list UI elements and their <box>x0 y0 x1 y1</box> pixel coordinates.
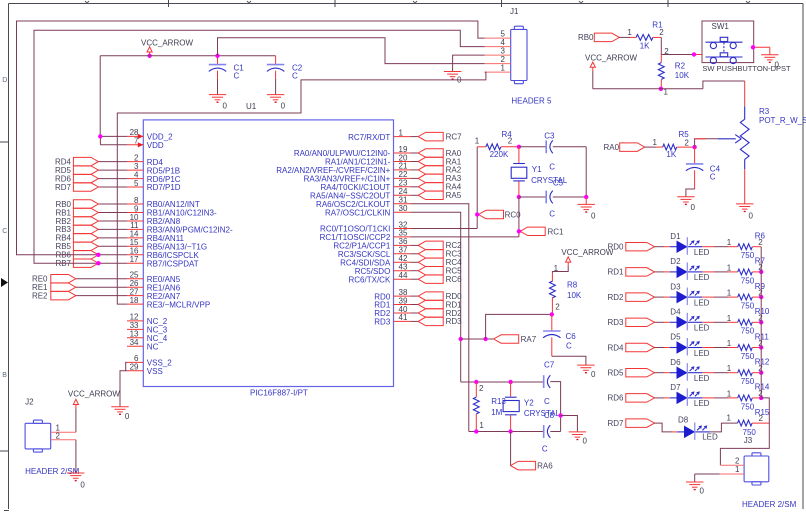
svg-text:0: 0 <box>700 486 705 495</box>
pin label 2 of R2 <box>664 47 669 56</box>
wire Y2 bottom rail (OSC2) <box>469 431 544 433</box>
value label C5 (overlapped) <box>553 179 564 188</box>
resistor R2 <box>658 55 689 89</box>
svg-text:RD1: RD1 <box>607 268 624 277</box>
svg-text:1: 1 <box>653 138 658 147</box>
pin label 1 of R13 <box>479 421 484 430</box>
wire RD5 port to LED D6 <box>655 372 670 374</box>
pin label 2 of R11 <box>758 339 763 348</box>
junction VCC_ARROW anchor <box>147 54 151 58</box>
svg-text:PIC16F887-I/PT: PIC16F887-I/PT <box>250 389 308 398</box>
LED D4 <box>670 308 710 333</box>
pin label 1 of R12 <box>727 364 732 373</box>
wire LED D8 to resistor R15 <box>710 423 738 432</box>
junction RC1 port tip <box>517 229 521 233</box>
svg-text:RC1: RC1 <box>548 227 565 236</box>
svg-text:2: 2 <box>735 457 740 466</box>
wire LED D1 to resistor R6 <box>702 246 737 248</box>
ports RC2-RC6 (chip side) <box>411 241 463 284</box>
svg-text:RA5: RA5 <box>446 191 462 200</box>
port RD0 (LED side) <box>607 242 654 251</box>
ports RD0-RD3 (chip side) <box>411 292 463 326</box>
svg-text:RC0: RC0 <box>505 210 522 219</box>
svg-text:2: 2 <box>55 431 60 440</box>
svg-text:0: 0 <box>591 212 596 221</box>
resistor R7 750 <box>738 257 766 286</box>
port RB0 <box>578 33 619 42</box>
svg-text:VCC_ARROW: VCC_ARROW <box>561 248 613 257</box>
connector J3 body <box>744 453 769 485</box>
svg-text:750: 750 <box>741 251 755 260</box>
ground at Y1 circuit <box>578 204 597 220</box>
svg-text:220K: 220K <box>490 150 509 159</box>
ports RE0-RE2 (left) <box>32 274 127 300</box>
svg-text:R3: R3 <box>759 107 770 116</box>
junction R13 top <box>474 380 478 384</box>
resistor R12 750 <box>738 358 770 387</box>
wire Y2 node to RA6 port <box>510 432 512 466</box>
svg-text:1M: 1M <box>491 408 502 417</box>
junction Y2 top <box>508 380 512 384</box>
resistor R11 750 <box>738 332 770 361</box>
svg-text:34: 34 <box>130 338 139 347</box>
junction R8/C6 branch at RA7 net <box>483 337 487 341</box>
pin label 2 of R15 <box>759 414 764 423</box>
wire R15 to bus <box>752 422 769 424</box>
svg-text:RA7: RA7 <box>521 335 537 344</box>
wire C6 to ground <box>552 356 586 365</box>
svg-text:1: 1 <box>727 364 732 373</box>
pin label 1 of R4 <box>475 136 480 145</box>
wire RD4 port to LED D5 <box>655 347 670 349</box>
resistor R9 750 <box>738 282 766 311</box>
wire R12 to bus <box>752 372 761 374</box>
pin label 2 of R12 <box>758 364 763 373</box>
svg-text:LED: LED <box>702 433 718 442</box>
wire C4 to ground <box>686 189 695 197</box>
svg-text:RC7: RC7 <box>446 132 463 141</box>
ground at J3 <box>686 482 705 495</box>
svg-text:RD3: RD3 <box>607 318 624 327</box>
power VCC_ARROW (at J2) <box>68 389 120 408</box>
connector J1 pin stubs and numbers 1-5 <box>485 30 511 73</box>
pin label 2 of R8 <box>555 303 560 312</box>
pin label 1 of R11 <box>727 339 732 348</box>
junction LED bus row 5 <box>759 345 763 349</box>
svg-text:RD7/P1D: RD7/P1D <box>147 183 181 192</box>
wire net RB7 to J1 pin 4 <box>34 30 485 263</box>
junction RB7 port tip <box>96 261 100 265</box>
svg-text:750: 750 <box>741 402 755 411</box>
pin label 2 of R9 <box>758 288 763 297</box>
junction SW1 right pin <box>751 45 755 49</box>
ground under R3 <box>736 204 754 220</box>
resistor R10 750 <box>738 307 770 336</box>
junction LED bus row 7 <box>759 396 763 400</box>
wire R6 to bus <box>752 246 761 248</box>
chip U1 refdes U1 <box>246 102 257 111</box>
svg-text:C: C <box>292 72 298 81</box>
svg-text:0: 0 <box>591 370 596 379</box>
pin label 1 of R2 <box>664 88 669 97</box>
svg-text:RD0: RD0 <box>607 243 624 252</box>
svg-text:RD7: RD7 <box>607 419 624 428</box>
svg-text:RD3: RD3 <box>446 317 463 326</box>
resistor R6 750 <box>738 232 766 261</box>
svg-text:18: 18 <box>130 296 139 305</box>
wire RD1 port to LED D2 <box>655 271 670 273</box>
svg-text:NC: NC <box>147 343 159 352</box>
svg-text:C8: C8 <box>544 411 555 420</box>
wire VCC to J1 pin 2 <box>218 38 485 64</box>
svg-text:RE2: RE2 <box>32 291 48 300</box>
capacitor C7 <box>544 360 555 406</box>
pin label 2 of R10 <box>758 314 763 323</box>
wire R9 to bus <box>752 296 761 298</box>
junction SW1 left pin <box>692 52 696 56</box>
svg-text:1: 1 <box>399 128 404 137</box>
junction LED bus row 4 <box>759 320 763 324</box>
wire VCC to R2 pin1 and R3 <box>593 71 745 89</box>
wire C8 to riser <box>550 431 560 433</box>
port RA6 <box>511 461 554 470</box>
wire RD6 port to LED D7 <box>655 397 670 399</box>
power VCC_ARROW (at R2) <box>585 53 637 71</box>
svg-text:HEADER 2/SM: HEADER 2/SM <box>742 500 797 509</box>
svg-text:0: 0 <box>775 60 780 69</box>
wire RA7/OSC1 from pin 30 <box>411 212 461 382</box>
svg-text:J3: J3 <box>744 436 753 445</box>
ground at SW1 <box>761 55 779 70</box>
connector J2 refdes J2 <box>25 397 34 406</box>
svg-text:D4: D4 <box>670 308 681 317</box>
resistor R13 labels <box>491 397 506 417</box>
svg-text:C: C <box>710 172 716 181</box>
svg-text:RA7/OSC1/CLKIN: RA7/OSC1/CLKIN <box>325 208 391 217</box>
svg-text:RD2: RD2 <box>607 293 624 302</box>
ground under C1 <box>209 95 228 111</box>
port RA0 (at R5) <box>604 143 645 152</box>
svg-text:7: 7 <box>134 137 139 146</box>
wire RB0 to R1 <box>619 36 636 38</box>
svg-text:Y1: Y1 <box>532 165 542 174</box>
wire RD7 port to LED D8 <box>655 423 678 432</box>
svg-text:1: 1 <box>727 289 732 298</box>
chip U1 part label PIC16F887-I/PT <box>250 389 308 398</box>
svg-text:750: 750 <box>741 327 755 336</box>
pin label 1 of R1 <box>627 28 632 37</box>
junction RB6 port tip <box>96 253 100 257</box>
svg-text:U1: U1 <box>246 102 257 111</box>
svg-text:1: 1 <box>727 238 732 247</box>
svg-text:2: 2 <box>758 238 763 247</box>
wire VSS pins to ground <box>120 362 127 406</box>
svg-text:LED: LED <box>694 374 710 383</box>
junction LED bus row 2 <box>759 270 763 274</box>
wire J1 pin 3 to ground <box>453 55 485 71</box>
svg-text:VCC_ARROW: VCC_ARROW <box>68 389 120 398</box>
port RD2 (LED side) <box>607 293 654 302</box>
junction R8 pin 2 node <box>550 312 554 316</box>
potentiometer R3 wiper arrow <box>718 135 741 143</box>
pin label 2 of R13 <box>479 384 484 393</box>
svg-text:RD6: RD6 <box>607 394 624 403</box>
svg-text:2: 2 <box>659 28 664 37</box>
svg-text:2: 2 <box>508 136 513 145</box>
wire LED D4 to resistor R10 <box>702 321 737 323</box>
capacitor C1 <box>209 56 244 95</box>
wire VCC to J2 pin 1 <box>75 408 77 432</box>
junction LED bus row 3 <box>759 295 763 299</box>
svg-text:J2: J2 <box>25 397 34 406</box>
pin label 1 of R5 <box>653 138 658 147</box>
wire R11 to bus <box>752 347 761 349</box>
wire ground stem Y1 <box>585 197 587 204</box>
connector J3 refdes J3 <box>744 436 753 445</box>
svg-text:C: C <box>2 228 7 235</box>
svg-text:1: 1 <box>735 465 740 474</box>
svg-text:0: 0 <box>223 102 228 111</box>
wire LED D6 to resistor R12 <box>702 372 737 374</box>
port RC0 <box>479 210 522 219</box>
svg-text:C: C <box>566 342 572 351</box>
svg-text:C: C <box>234 72 240 81</box>
svg-text:10K: 10K <box>567 291 582 300</box>
svg-text:0: 0 <box>583 437 588 446</box>
svg-text:1: 1 <box>479 421 484 430</box>
capacitor C8 <box>542 425 550 454</box>
pin label 2 of R14 <box>758 389 763 398</box>
svg-text:1: 1 <box>554 264 559 273</box>
power VCC_ARROW (top) <box>141 38 193 55</box>
resistor R4 <box>486 130 512 159</box>
port RD5 (LED side) <box>607 368 654 377</box>
connector J2 pin 2 stub <box>51 431 76 440</box>
svg-text:1: 1 <box>727 339 732 348</box>
svg-text:D1: D1 <box>670 232 681 241</box>
ground at VSS <box>111 407 130 421</box>
wire R10 to bus <box>752 321 761 323</box>
wire VCC riser to VDD pins <box>100 56 127 145</box>
wire RD0 port to LED D1 <box>655 246 670 248</box>
connector J1 refdes J1 <box>510 7 519 16</box>
pin label 1 of R7 <box>727 263 732 272</box>
junction Y2 ground branch <box>558 413 562 417</box>
wire node B to C3 <box>519 146 546 148</box>
LED D5 <box>670 333 710 358</box>
LED D8 <box>677 416 718 442</box>
svg-text:750: 750 <box>741 377 755 386</box>
svg-text:RC6/TX/CK: RC6/TX/CK <box>349 275 391 284</box>
pin label 1 of R14 <box>727 389 732 398</box>
svg-text:1: 1 <box>727 263 732 272</box>
LED D1 <box>670 232 710 257</box>
pin label 2 of R5 <box>684 139 689 148</box>
svg-text:750: 750 <box>741 352 755 361</box>
pin label 1 of R15 <box>727 414 732 423</box>
port RD6 (LED side) <box>607 394 654 403</box>
crystal Y2 <box>503 382 561 432</box>
svg-text:C5: C5 <box>553 179 564 188</box>
svg-text:VCC_ARROW: VCC_ARROW <box>585 53 637 62</box>
svg-text:0: 0 <box>749 211 754 220</box>
wire LED D7 to resistor R14 <box>702 397 737 399</box>
svg-text:LED: LED <box>694 248 710 257</box>
svg-text:RB7/ICSPDAT: RB7/ICSPDAT <box>147 259 199 268</box>
pin label 1 of R10 <box>727 314 732 323</box>
svg-text:C3: C3 <box>544 131 555 140</box>
port RD4 (LED side) <box>607 343 654 352</box>
svg-text:C: C <box>544 397 550 406</box>
port RD1 (LED side) <box>607 268 654 277</box>
switch SW1 right stub to ground <box>754 47 770 54</box>
wire net RB6 to J1 pin 5 <box>17 21 485 255</box>
ground at J2 <box>67 473 85 490</box>
svg-text:HEADER 5: HEADER 5 <box>511 97 552 106</box>
svg-text:1: 1 <box>727 414 732 423</box>
LED D2 <box>670 257 710 282</box>
resistor R8 <box>550 273 582 314</box>
svg-text:1: 1 <box>727 314 732 323</box>
junction C3/C5 ground node <box>584 195 588 199</box>
pin label 2 of R4 <box>508 136 513 145</box>
resistor R14 750 <box>738 383 770 412</box>
wire VCC to R8 <box>552 266 568 274</box>
svg-text:R13: R13 <box>491 397 506 406</box>
wire RA7 branch to port <box>461 338 494 340</box>
svg-text:750: 750 <box>741 302 755 311</box>
ground under C2 <box>267 95 286 111</box>
svg-text:D7: D7 <box>670 383 681 392</box>
connector J1 label HEADER 5 <box>511 97 552 106</box>
junction R5/C4/wiper node <box>692 145 696 149</box>
wire R14 to bus <box>752 397 761 399</box>
svg-text:2: 2 <box>664 47 669 56</box>
svg-text:RD7: RD7 <box>55 183 72 192</box>
pin label 2 of R1 <box>659 28 664 37</box>
svg-text:B: B <box>2 372 7 379</box>
port RC1 <box>520 227 564 236</box>
wire J1 pin 1 to MCLR (RE3) <box>117 72 486 304</box>
svg-text:D2: D2 <box>670 257 681 266</box>
svg-text:750: 750 <box>741 276 755 285</box>
ground at J1 pin 3 <box>444 72 462 85</box>
connector J2 label HEADER 2/SM <box>25 467 80 476</box>
junction VDD node <box>98 134 102 138</box>
svg-text:C6: C6 <box>566 332 577 341</box>
connector J3 pin 1 stub <box>720 465 744 474</box>
svg-text:Y2: Y2 <box>524 399 534 408</box>
svg-text:0: 0 <box>691 203 696 212</box>
svg-text:1K: 1K <box>666 150 676 159</box>
svg-text:HEADER 2/SM: HEADER 2/SM <box>25 467 80 476</box>
wire RD2 port to LED D3 <box>655 296 670 298</box>
wire C5 to ground <box>553 196 586 198</box>
svg-text:5: 5 <box>134 179 139 188</box>
svg-text:RD4: RD4 <box>607 343 624 352</box>
svg-text:D8: D8 <box>678 416 689 425</box>
svg-text:LED: LED <box>694 273 710 282</box>
power VCC_ARROW (at R8) <box>561 248 613 266</box>
wire C7 right to C8 right <box>550 382 560 432</box>
svg-text:RC6: RC6 <box>446 275 463 284</box>
switch SW1 label <box>702 64 791 73</box>
wire J2 pin 2 to ground <box>75 440 77 473</box>
LED D7 <box>670 383 710 408</box>
svg-text:17: 17 <box>130 255 139 264</box>
svg-text:VDD: VDD <box>147 141 164 150</box>
wire RA6/OSC2 from pin 31 <box>411 204 469 432</box>
wire Y2 to ground <box>561 416 578 432</box>
svg-text:2: 2 <box>684 139 689 148</box>
switch SW1 left stub <box>694 54 702 56</box>
connector J2 pin 1 stub <box>51 424 76 433</box>
junction RA7 wire at port branch <box>459 337 463 341</box>
pin label 1 of R9 <box>727 289 732 298</box>
svg-text:1: 1 <box>475 136 480 145</box>
svg-text:POT_R_W_S: POT_R_W_S <box>759 116 806 125</box>
ground at Y2 circuit <box>569 432 588 446</box>
junction node B top <box>517 145 521 149</box>
wire RA7/OSC1 net riser (node A) <box>476 147 478 229</box>
svg-text:D6: D6 <box>670 358 681 367</box>
svg-text:RB0: RB0 <box>578 33 594 42</box>
svg-text:2: 2 <box>759 414 764 423</box>
port RD3 (LED side) <box>607 318 654 327</box>
capacitor C5 <box>546 191 555 219</box>
svg-text:R8: R8 <box>567 281 578 290</box>
pin label 2 of R6 <box>758 238 763 247</box>
wire R4 to node B <box>501 146 519 148</box>
ground under C4 <box>677 197 695 212</box>
svg-text:10K: 10K <box>675 71 690 80</box>
svg-text:1K: 1K <box>640 42 650 51</box>
wire LED D5 to resistor R11 <box>702 347 737 349</box>
svg-text:RD3: RD3 <box>374 318 391 327</box>
LED D3 <box>670 282 710 307</box>
svg-text:RC7/RX/DT: RC7/RX/DT <box>348 133 390 142</box>
svg-text:30: 30 <box>399 204 408 213</box>
switch SW1 symbol <box>706 37 743 63</box>
capacitor C3 <box>544 131 555 171</box>
junction C1 top <box>215 54 219 58</box>
crystal Y1 <box>511 147 568 197</box>
potentiometer R3 <box>740 81 806 204</box>
ports RB0-RB7 (left) <box>55 200 127 268</box>
svg-text:41: 41 <box>399 313 408 322</box>
port RC7 <box>411 132 463 141</box>
svg-text:44: 44 <box>399 271 408 280</box>
junction RC0 port tip <box>475 212 479 216</box>
svg-text:J1: J1 <box>510 7 519 16</box>
wire LED D2 to resistor R7 <box>702 271 737 273</box>
connector J3 pin 2 stub <box>720 457 744 466</box>
svg-text:0: 0 <box>125 412 130 421</box>
chip U1 right pin stubs, numbers and names <box>276 128 410 326</box>
svg-text:29: 29 <box>130 363 139 372</box>
pin label 1 of R8 <box>554 264 559 273</box>
svg-text:C: C <box>549 163 555 172</box>
wire LED bus <box>720 247 769 466</box>
junction LED bus row 6 <box>759 371 763 375</box>
svg-text:LED: LED <box>694 349 710 358</box>
svg-text:C: C <box>542 445 548 454</box>
svg-text:VSS: VSS <box>147 367 163 376</box>
junction R13 bottom <box>474 429 478 433</box>
svg-text:1: 1 <box>627 28 632 37</box>
wire C3 to ground corner <box>553 147 586 197</box>
wire R1 to R2/SW1 node <box>653 37 694 54</box>
